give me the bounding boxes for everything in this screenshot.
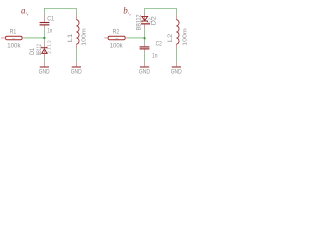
- wire L1 to ground: [75, 49, 77, 67]
- svg-text:100k: 100k: [7, 42, 21, 49]
- wire top rail a: [44, 8, 76, 10]
- wire D2 to node B: [144, 29, 146, 38]
- label R1: [10, 29, 17, 36]
- svg-text:BB112: BB112: [135, 14, 142, 30]
- svg-text:C1: C1: [47, 15, 54, 22]
- svg-text:L1: L1: [67, 33, 74, 42]
- varicap diode D1: [42, 42, 47, 58]
- pin numbers D1: [47, 39, 52, 54]
- svg-text:R1: R1: [10, 29, 17, 36]
- svg-text:C2: C2: [156, 40, 162, 47]
- wire top rail b: [145, 8, 177, 10]
- wire D1 to ground: [43, 57, 45, 66]
- wire rail to L1: [75, 8, 77, 15]
- ground (L2): [171, 66, 182, 75]
- pin numbers D2: [147, 17, 152, 23]
- label 1n (C1 value): [47, 28, 52, 35]
- figure label a.: [21, 5, 29, 16]
- ground (L1): [71, 66, 82, 75]
- wire R2 to node B: [128, 37, 144, 39]
- label C1: [47, 15, 54, 22]
- wire C2 to ground: [144, 52, 146, 66]
- label L2: [167, 33, 174, 42]
- label L1: [67, 33, 74, 42]
- label 100m (L1 value): [82, 28, 88, 46]
- wire node B to C2: [144, 38, 146, 46]
- svg-text:1n: 1n: [152, 53, 158, 60]
- figure label b.: [123, 6, 131, 17]
- wire C1 to node A: [43, 28, 45, 38]
- label 100m (L2 value): [183, 28, 189, 46]
- label BB112 (D1 value): [36, 44, 43, 55]
- varicap diode D2: [141, 13, 150, 28]
- wire rail to D2: [144, 8, 146, 13]
- wire R1 to node A: [25, 37, 45, 39]
- svg-text:GND: GND: [139, 69, 150, 76]
- svg-text:GND: GND: [39, 69, 50, 76]
- svg-text:BB112: BB112: [36, 44, 43, 55]
- capacitor C2: [140, 46, 150, 52]
- svg-text:100k: 100k: [110, 42, 124, 49]
- svg-text:D1: D1: [29, 48, 36, 55]
- ground (D1): [39, 66, 50, 75]
- svg-text:100m: 100m: [82, 28, 88, 46]
- svg-text:R2: R2: [113, 29, 120, 36]
- resistor R2: [104, 36, 128, 40]
- label C2: [156, 40, 162, 47]
- svg-text:12: 12: [147, 17, 152, 23]
- label 1n (C2 value): [152, 53, 158, 60]
- resistor R1: [1, 36, 24, 40]
- capacitor C1: [40, 14, 50, 28]
- svg-text:GND: GND: [71, 69, 82, 76]
- svg-text:2112: 2112: [47, 39, 52, 54]
- label 100k: [7, 42, 21, 49]
- label D2: [151, 16, 158, 25]
- label R2: [113, 29, 120, 36]
- wire rail to L2: [175, 8, 177, 15]
- ground (C2): [139, 66, 150, 75]
- svg-text:1n: 1n: [47, 28, 52, 35]
- inductor L2: [176, 15, 179, 49]
- inductor L1: [76, 15, 79, 49]
- wire node A to D1: [43, 38, 45, 42]
- label BB112 (D2 value): [135, 14, 142, 30]
- label 100k: [110, 42, 124, 49]
- node B junction: [144, 37, 146, 39]
- node A junction: [43, 37, 45, 39]
- wire rail to C1: [43, 8, 45, 15]
- svg-text:L2: L2: [167, 33, 174, 42]
- svg-text:100m: 100m: [183, 28, 189, 46]
- svg-text:GND: GND: [171, 69, 182, 76]
- label D1: [29, 48, 36, 55]
- wire L2 to ground: [175, 49, 177, 67]
